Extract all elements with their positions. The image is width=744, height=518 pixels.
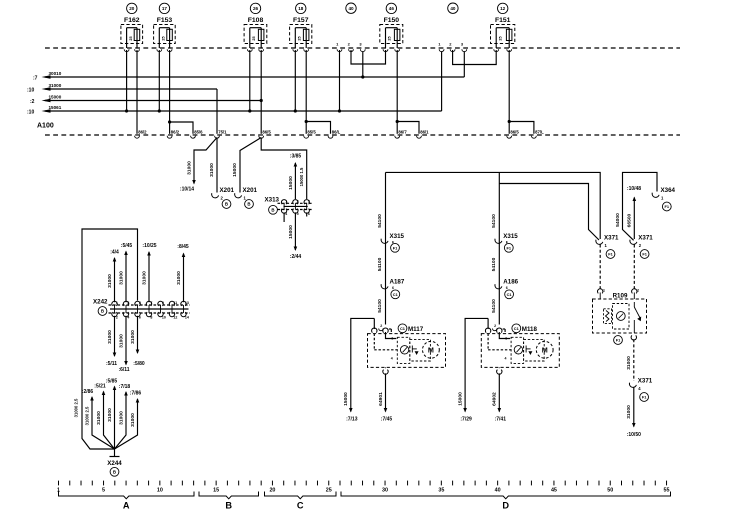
wire F153 right leg to terminal 86/2: [169, 50, 171, 134]
svg-text:A100: A100: [37, 123, 54, 130]
terminal 86/L on A100 bottom bus: [328, 129, 341, 138]
component M118 label: [522, 326, 538, 333]
svg-text::2/44: :2/44: [290, 254, 302, 260]
node circled B at X244: [110, 467, 119, 476]
svg-text::2/86: :2/86: [82, 389, 94, 395]
wire X244 branch up-arrow to :7/18: [115, 384, 131, 449]
wire X242 pin7 up-arrow to :10/25: [142, 243, 157, 302]
terminal sockets F151 pins on bus: [494, 49, 512, 51]
svg-text::7/18: :7/18: [119, 384, 131, 390]
svg-text:31000: 31000: [626, 356, 632, 370]
wire F162 right leg to terminal 86/2: [136, 50, 138, 134]
svg-text:4: 4: [127, 315, 129, 319]
connector X315 inline pin (M118 feed): [495, 233, 518, 245]
terminal sockets F153 pins on bus: [157, 49, 172, 51]
svg-text::7/45: :7/45: [381, 417, 393, 423]
svg-text:C1: C1: [393, 292, 399, 297]
svg-text:45: 45: [551, 487, 557, 493]
svg-text:F153: F153: [157, 17, 173, 24]
component A100 bottom bus (dashed): [45, 134, 680, 136]
node :10/14 destination label: [180, 187, 194, 193]
terminal 87/L on A100 bottom bus: [532, 129, 545, 138]
motor unit M117 top pins: [372, 324, 392, 333]
wire F108 right leg to terminal 86/5: [260, 50, 262, 134]
terminal sockets F108 pins on bus: [247, 49, 263, 51]
svg-text::5/45: :5/45: [121, 243, 133, 249]
svg-text:10: 10: [157, 487, 163, 493]
svg-text:X315: X315: [390, 233, 405, 240]
svg-text:31000 2.5: 31000 2.5: [74, 398, 79, 417]
svg-text:D: D: [502, 501, 509, 511]
svg-text:1: 1: [116, 301, 118, 305]
svg-text::5/80: :5/80: [133, 361, 145, 367]
svg-text:M: M: [542, 346, 548, 355]
component A187 inline pin: [381, 279, 405, 291]
svg-text:25: 25: [388, 36, 392, 40]
svg-text:85/5: 85/5: [307, 129, 316, 134]
connector X371 pin 1: [596, 235, 619, 249]
node circled F1 at X371 pin4: [640, 393, 649, 402]
svg-text:F150: F150: [384, 17, 400, 24]
terminal group1 pin 1: [336, 42, 342, 52]
svg-text::10/25: :10/25: [142, 243, 156, 249]
node circled 46 above F150: [386, 3, 396, 13]
svg-text:25: 25: [252, 36, 256, 40]
svg-text:A: A: [123, 501, 130, 511]
svg-text:31000: 31000: [626, 405, 632, 419]
node circled F1 below X315 (M118): [504, 243, 513, 252]
svg-text::8/45: :8/45: [177, 244, 189, 250]
component M117 label: [408, 326, 424, 333]
svg-text:2: 2: [380, 324, 382, 328]
svg-text:8: 8: [150, 315, 152, 319]
svg-text:F157: F157: [293, 17, 309, 24]
svg-text:15000: 15000: [49, 94, 62, 99]
wire X242 pin3 up-arrow to :5/45: [119, 243, 133, 302]
svg-text::10: :10: [27, 109, 34, 115]
svg-text::7/29: :7/29: [460, 417, 472, 423]
node circled C1 below A186: [505, 290, 514, 299]
wire top loop M117 supply to X371 pin1: [386, 172, 601, 239]
svg-text:X313: X313: [265, 197, 280, 204]
svg-text:31000: 31000: [96, 411, 102, 425]
node circled 12 above F151: [498, 3, 508, 13]
connector X313 block: [278, 200, 313, 222]
wire :10 31000 horizontal feed: [27, 83, 217, 94]
wire X364 branch from X371 pin2: [615, 172, 657, 240]
node circled B at X242: [98, 307, 107, 316]
svg-text:15000: 15000: [457, 392, 463, 406]
svg-text::7/41: :7/41: [495, 417, 507, 423]
svg-text:86/L: 86/L: [332, 129, 341, 134]
node :7/41 destination label: [495, 417, 507, 423]
node section letter A: [123, 501, 130, 511]
wire 75/1 drop from 31000: [216, 89, 218, 134]
wire F108 left leg to 15061: [248, 50, 251, 113]
wire bracket 86/7 to 86/1: [396, 120, 419, 134]
svg-text:50: 50: [607, 487, 613, 493]
wire X242 pin1 up-arrow to :4/4: [107, 250, 119, 303]
node section D brace: [341, 492, 671, 499]
motor unit M118 outer dashed box: [481, 334, 559, 368]
svg-text:A187: A187: [390, 279, 405, 286]
svg-text:31000: 31000: [119, 334, 125, 348]
node section letter C: [297, 501, 304, 511]
node section letter D: [502, 501, 509, 511]
wire 86/5 branch loop to X313 pin3: [261, 138, 307, 200]
svg-text:54100: 54100: [377, 299, 383, 313]
node circled C1 at M118 box: [512, 324, 521, 333]
node :7/13 destination label: [346, 417, 358, 423]
node circled F1 below X315 (M117): [391, 243, 400, 252]
svg-text:31000: 31000: [107, 330, 113, 344]
wire dashed X371 pin1 to R109 pin1: [599, 245, 601, 290]
terminal sockets F162 pins on bus: [124, 49, 139, 51]
svg-text:F151: F151: [495, 17, 511, 24]
svg-text::5/21: :5/21: [94, 384, 106, 390]
wire top loop M118 supply to X371 pin1 diagonal: [499, 184, 599, 241]
wire X371 pin4 down-arrow to :10/50: [626, 387, 635, 428]
connector X201 pin 1: [235, 187, 258, 201]
wire M118 output to :7/41: [492, 373, 502, 412]
svg-text::7/86: :7/86: [130, 391, 142, 397]
wire group2 pin3 riser (end of 30010): [463, 50, 465, 77]
node circled 40 above group2 pins: [448, 3, 458, 13]
terminal group2 pin 3: [461, 42, 467, 52]
node section A brace: [59, 492, 195, 499]
motor unit M117 bottom pin: [383, 367, 388, 374]
svg-text:25: 25: [498, 36, 502, 40]
wire bracket 86/5 to 87/L: [508, 120, 534, 134]
motor unit M117 outer dashed box: [368, 334, 446, 368]
svg-text::2: :2: [30, 99, 35, 105]
svg-text:66500: 66500: [627, 213, 633, 227]
svg-text:31000: 31000: [187, 161, 193, 175]
svg-text:15: 15: [213, 487, 219, 493]
wire bracket 85/5 to 86/L: [305, 120, 331, 134]
svg-text:7: 7: [150, 301, 152, 305]
svg-text:B: B: [225, 501, 232, 511]
wire X242 pin4 down-arrow to :6/11: [118, 316, 129, 373]
svg-text:12: 12: [173, 315, 177, 319]
svg-text::4/4: :4/4: [110, 250, 119, 256]
svg-text::10/48: :10/48: [627, 186, 641, 192]
svg-text:40: 40: [450, 6, 456, 11]
svg-text:26: 26: [253, 6, 259, 11]
terminal 86/1 on A100 bottom bus: [417, 129, 430, 138]
svg-text::7/13: :7/13: [346, 417, 358, 423]
terminal 86/2 on A100 bottom bus: [135, 129, 148, 138]
svg-text:25: 25: [129, 36, 133, 40]
svg-text:10: 10: [162, 315, 166, 319]
node circled B at X201 pin2: [222, 200, 231, 209]
svg-text:C: C: [297, 501, 304, 511]
terminal 85/6 on A100 bottom bus: [191, 129, 204, 138]
svg-text:31000: 31000: [176, 271, 182, 285]
svg-text:1: 1: [285, 200, 287, 204]
svg-text:M118: M118: [522, 326, 538, 333]
svg-text:31000: 31000: [49, 83, 62, 88]
svg-text:X371: X371: [638, 235, 653, 242]
wire X244 branch up-arrow to :7/86: [115, 391, 142, 450]
node circled 17 above F153: [159, 3, 169, 13]
wire dashed X371 pin2 to R109 pin2: [633, 245, 635, 290]
terminal 86/7 on A100 bottom bus: [395, 129, 408, 138]
wire 75/1 down to X201 pin2: [209, 138, 217, 193]
node circled C1 below A187: [391, 290, 400, 299]
svg-text:31000: 31000: [107, 408, 113, 422]
svg-text:54100: 54100: [491, 299, 497, 313]
svg-text:R109: R109: [613, 292, 628, 299]
motor M117 M symbol: [374, 332, 439, 363]
svg-text:9: 9: [162, 301, 164, 305]
node section C brace: [265, 492, 337, 499]
ground X244 stub and bar: [110, 449, 120, 457]
wire group1 pin3 riser: [362, 50, 364, 77]
component A186 inline pin: [495, 279, 519, 291]
svg-text:55: 55: [664, 487, 670, 493]
wire X242 pin5 loop over to X244 ground bundle: [74, 229, 138, 449]
svg-text:31000: 31000: [130, 330, 136, 344]
svg-text:M117: M117: [408, 326, 424, 333]
wire X242 pin6 down-arrow to :5/80: [130, 316, 145, 367]
svg-text:86/1: 86/1: [420, 129, 429, 134]
relay R109 bottom pin: [631, 335, 636, 340]
wire U-link group1 pin2 to F150 left: [351, 50, 386, 64]
wire F157 left leg to 15061: [294, 50, 297, 113]
svg-text::5/11: :5/11: [106, 361, 117, 367]
component A100 top bus (dashed): [45, 47, 680, 49]
svg-text:86/7: 86/7: [398, 129, 407, 134]
svg-text:15000: 15000: [288, 176, 294, 190]
svg-text:54100: 54100: [377, 214, 383, 228]
svg-text:86/5: 86/5: [510, 129, 519, 134]
connector X364 pin 1: [652, 187, 675, 201]
svg-text:31000: 31000: [107, 274, 113, 288]
terminal group1 pin 3: [359, 42, 365, 52]
svg-text::10/14: :10/14: [180, 187, 194, 193]
node circled F1 at X371 pin2: [640, 250, 649, 259]
node :3/85 destination label: [290, 154, 302, 160]
node junction dot 15000 / F108 right leg: [260, 99, 263, 102]
svg-text:B: B: [113, 469, 116, 474]
svg-text:40: 40: [495, 487, 501, 493]
svg-text:31000: 31000: [142, 271, 148, 285]
node circled 26 above F108: [250, 3, 260, 13]
wire dashed R109 to X371 pin4: [626, 339, 634, 381]
wire F153 left leg to 15061: [158, 50, 161, 113]
node circled C1 at M117 box: [398, 324, 407, 333]
terminal group2 pin 1: [438, 42, 444, 52]
svg-text:B: B: [271, 207, 274, 212]
connector X315 inline pin (M117 feed): [381, 233, 404, 245]
wire U-link group2 pin2 to F151 left: [453, 50, 497, 65]
svg-text:4: 4: [285, 212, 287, 216]
svg-text:X371: X371: [604, 235, 619, 242]
wire X313 pin2 up-arrow to :3/85: [288, 162, 297, 199]
wire M117 left pin branch to :7/13: [373, 318, 375, 329]
svg-text:46: 46: [389, 6, 395, 11]
svg-text:31000: 31000: [130, 413, 136, 427]
svg-text:20: 20: [269, 487, 275, 493]
svg-text:18: 18: [298, 6, 304, 11]
wire M117 output to :7/45: [378, 373, 388, 412]
node circled B at X313: [269, 205, 278, 214]
wire :2 15000 horizontal feed: [30, 94, 261, 105]
terminal sockets F157 pins on bus: [293, 49, 309, 51]
svg-text:15000 1.5: 15000 1.5: [299, 167, 304, 186]
motor unit M118 top pins: [485, 324, 505, 333]
svg-text:X364: X364: [661, 187, 676, 194]
wire bracket 86/2 to 85/6: [168, 120, 193, 133]
svg-text:86/2: 86/2: [138, 129, 147, 134]
svg-text:X371: X371: [638, 378, 653, 385]
node section B brace: [199, 492, 259, 499]
svg-text:X242: X242: [93, 299, 108, 306]
svg-text:54100: 54100: [491, 257, 497, 271]
svg-text:86/5: 86/5: [262, 129, 271, 134]
svg-text:4: 4: [391, 357, 393, 361]
component A100 label: [37, 123, 54, 130]
svg-text:5: 5: [139, 301, 141, 305]
svg-text:5: 5: [297, 212, 299, 216]
svg-text:64902: 64902: [492, 392, 498, 406]
svg-text:64901: 64901: [378, 392, 384, 406]
node junction dot wire30010 / pin3 group1: [361, 75, 364, 78]
svg-text:B: B: [101, 309, 104, 314]
wire 86/5 diagonal to X201 pin1: [232, 138, 261, 193]
svg-text:54100: 54100: [377, 257, 383, 271]
connector X371 pin 4: [629, 378, 652, 392]
svg-text:31000: 31000: [119, 411, 125, 425]
motor unit M118 bottom pin: [497, 367, 502, 374]
svg-text:1: 1: [391, 337, 393, 341]
component X242 label: [93, 299, 108, 306]
svg-text:86/2: 86/2: [171, 129, 180, 134]
svg-text:15061: 15061: [49, 105, 62, 110]
svg-text:20: 20: [129, 6, 135, 11]
wire M118 left pin branch to :7/29: [487, 318, 489, 329]
svg-text::10: :10: [27, 87, 34, 93]
svg-text:31000: 31000: [119, 271, 125, 285]
wire F162 left leg to 15061: [125, 50, 128, 113]
svg-text:X201: X201: [243, 187, 258, 194]
node circled 40 above group1 pins: [346, 3, 356, 13]
svg-text:B: B: [225, 202, 228, 207]
svg-text::5/85: :5/85: [106, 379, 118, 385]
connector X371 pin 2: [630, 235, 653, 249]
svg-text:6: 6: [308, 212, 310, 216]
wire :10/48 up-arrow from X371 pin2: [627, 197, 637, 240]
terminal sockets F150 pins on bus: [383, 49, 400, 51]
wire group1 pin1 riser to 15061: [338, 50, 341, 113]
svg-text:17: 17: [162, 6, 168, 11]
svg-text:3: 3: [308, 200, 310, 204]
svg-text:X201: X201: [220, 187, 235, 194]
wire X244 branch up-arrow to :5/85: [106, 379, 118, 450]
component R109 label: [613, 292, 628, 299]
terminal 85/5 on A100 bottom bus: [304, 129, 317, 138]
terminal 75/1 on A100 bottom bus: [215, 129, 228, 138]
svg-text:40: 40: [348, 6, 354, 11]
fuse F157: [290, 17, 312, 48]
svg-text:2: 2: [494, 324, 496, 328]
svg-text:25: 25: [326, 487, 332, 493]
svg-text:A186: A186: [503, 279, 518, 286]
ruler scale ticks 1-55: [57, 481, 670, 494]
node circled F1 at R109 bottom: [614, 336, 623, 345]
svg-text:C1: C1: [400, 326, 406, 331]
terminal group1 pin 2: [348, 42, 354, 52]
svg-text:F108: F108: [248, 17, 264, 24]
wire main vertical M118 with 54100 labels: [491, 172, 499, 324]
svg-text:15000: 15000: [288, 225, 294, 239]
svg-text:75/1: 75/1: [218, 129, 227, 134]
wire F151 right leg to terminal 86/5: [508, 50, 510, 134]
svg-text:6: 6: [139, 315, 141, 319]
svg-text:11: 11: [173, 301, 177, 305]
svg-text::10/50: :10/50: [627, 432, 641, 438]
svg-text:15000: 15000: [343, 392, 349, 406]
relay unit R109 box: [593, 289, 647, 334]
svg-text:B: B: [247, 202, 250, 207]
fuse F153: [154, 17, 176, 48]
svg-text:54100: 54100: [491, 214, 497, 228]
node :7/29 destination label: [460, 417, 472, 423]
svg-text::6/11: :6/11: [118, 367, 129, 373]
svg-text:30010: 30010: [49, 71, 62, 76]
wire X244 branch up-arrow to :5/21: [94, 384, 114, 450]
terminal group2 pin 2: [449, 42, 455, 52]
fuse F151: [491, 17, 515, 48]
terminal 86/5 on A100 bottom bus: [259, 129, 272, 138]
svg-text:25: 25: [162, 36, 166, 40]
wire F157 right leg to terminal 85/5: [305, 50, 307, 134]
svg-text:2: 2: [637, 289, 639, 293]
component X244 label: [107, 460, 122, 467]
fuse F108: [244, 17, 267, 48]
svg-text:M: M: [428, 346, 434, 355]
node :10/50 destination label: [627, 432, 641, 438]
svg-text:X244: X244: [107, 460, 122, 467]
svg-text:31000 2.5: 31000 2.5: [85, 406, 90, 425]
node :7/45 destination label: [381, 417, 393, 423]
wire X242 pin13 up-arrow to :8/45: [176, 244, 189, 302]
wire :10 15061 horizontal feed: [27, 105, 442, 116]
wire X242 pin2 down-arrow to :5/11: [106, 316, 117, 367]
connector X201 pin 2: [212, 187, 235, 201]
terminal 86/5 on A100 bottom bus: [507, 129, 520, 138]
svg-text:87/L: 87/L: [535, 129, 544, 134]
svg-text:30: 30: [382, 487, 388, 493]
svg-text:6: 6: [392, 286, 394, 290]
svg-text:15000: 15000: [232, 163, 238, 177]
svg-text::3/85: :3/85: [290, 154, 302, 160]
wire group2 pin1 riser (end of 15061): [441, 50, 443, 111]
connector X242 block: [109, 301, 191, 319]
svg-text:C1: C1: [514, 326, 520, 331]
svg-text:12: 12: [500, 6, 506, 11]
node circled B at X201 pin1: [245, 200, 254, 209]
svg-text:14: 14: [185, 315, 189, 319]
svg-text:1: 1: [505, 337, 507, 341]
fuse F150: [380, 17, 403, 48]
svg-text::7: :7: [33, 75, 38, 81]
svg-text:C1: C1: [507, 292, 513, 297]
terminal 86/2 on A100 bottom bus: [167, 129, 180, 138]
node circled 18 above F157: [296, 3, 306, 13]
svg-text:35: 35: [438, 487, 444, 493]
